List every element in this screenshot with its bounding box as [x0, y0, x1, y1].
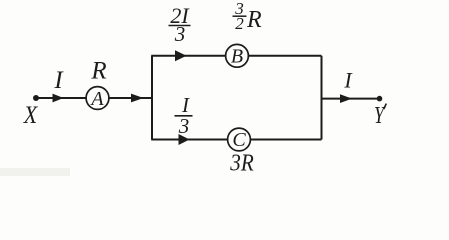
arrow into junction: [131, 94, 144, 103]
svg-text:X: X: [23, 102, 39, 129]
wire top rail left: [151, 55, 225, 57]
svg-text:R: R: [90, 58, 106, 85]
svg-text:3: 3: [178, 114, 190, 138]
ammeter A: [86, 87, 109, 110]
meter C: [228, 128, 251, 151]
svg-text:B: B: [231, 45, 243, 67]
current arrow I input: [53, 67, 65, 102]
current arrow 2I/3: [169, 3, 191, 61]
current arrow I output: [340, 68, 353, 103]
meter B: [226, 44, 249, 67]
svg-text:R: R: [246, 7, 262, 33]
wire input left: [36, 97, 86, 99]
svg-text:C: C: [232, 129, 246, 151]
node X: [23, 95, 39, 129]
wire bottom rail right: [251, 139, 322, 141]
svg-text:2: 2: [235, 14, 244, 33]
node Y: [374, 96, 386, 129]
svg-text:A: A: [89, 88, 104, 110]
svg-text:3: 3: [174, 22, 186, 46]
wire top rail right: [248, 55, 321, 57]
scan smudge bottom-left: [0, 168, 70, 176]
current arrow I/3: [175, 93, 193, 145]
wire left vertical: [151, 56, 153, 140]
wire bottom rail left: [151, 139, 227, 141]
wire right vertical: [321, 56, 323, 140]
label 3/2 R: [233, 0, 263, 33]
wire output: [322, 98, 380, 100]
svg-text:3R: 3R: [229, 151, 254, 177]
wire input right: [109, 97, 152, 99]
